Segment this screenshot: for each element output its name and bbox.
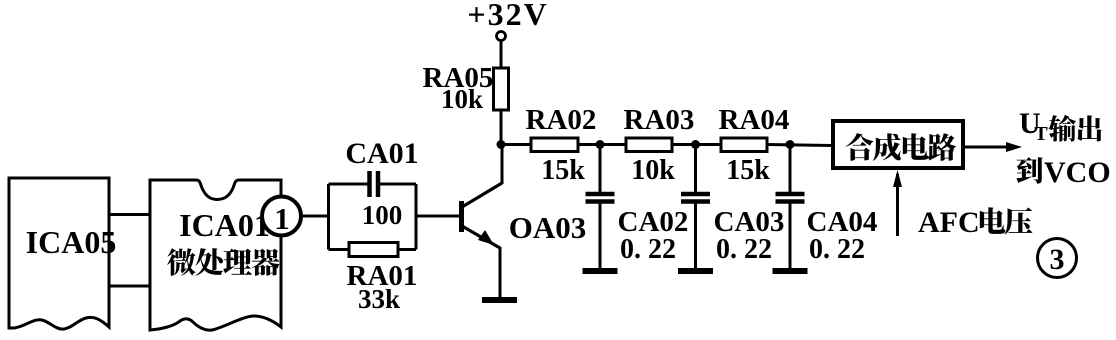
resistor RA01 33k [329,243,418,315]
svg-text:RA02: RA02 [526,104,597,136]
node A (CA02 tap) [596,140,605,149]
svg-text:AFC: AFC [918,206,980,239]
wire RA05 to junction [500,110,503,145]
wire RC to transistor base [416,215,460,218]
svg-text:CA01: CA01 [345,137,418,170]
svg-text:VCO: VCO [1044,156,1111,189]
resistor RA05 10k [423,62,509,114]
resistor RA03 10k [624,104,695,186]
wire RA03 to RA04 [672,143,721,146]
page marker 3 [1038,239,1077,278]
wire junction to RA02 [501,143,531,146]
wire ICA05-ICA01 lower [109,285,150,288]
AFC input arrow [893,170,902,236]
ground (CA02) [583,268,618,274]
svg-text:ICA01: ICA01 [179,207,270,243]
resistor RA02 15k [526,104,597,186]
capacitor CA04 0.22 [776,145,878,269]
ground (CA04) [773,268,808,274]
svg-text:100: 100 [362,200,403,230]
node B (CA03 tap) [691,140,700,149]
svg-text:0. 22: 0. 22 [809,234,865,265]
wire output arrow to VCO [963,142,1022,152]
wire ICA05-ICA01 upper [109,213,150,216]
label AFC voltage [918,206,1032,239]
node collector junction [497,140,506,149]
IC block ICA01 microprocessor [150,180,281,330]
svg-text:T: T [1034,123,1048,145]
svg-text:+32V: +32V [467,0,548,32]
svg-text:0. 22: 0. 22 [716,234,772,265]
label to VCO [1016,156,1110,189]
ground (emitter) [482,297,517,303]
wire RA04 to synth box [767,145,832,146]
svg-text:RA03: RA03 [624,104,695,136]
svg-text:10k: 10k [631,155,675,186]
svg-text:33k: 33k [358,284,400,314]
svg-text:OA03: OA03 [509,210,587,245]
svg-text:0. 22: 0. 22 [620,234,676,265]
svg-text:ICA05: ICA05 [26,224,117,260]
wire pin1 to RC network [301,215,329,218]
label UT output [1019,107,1102,145]
capacitor CA02 0.22 [586,145,689,269]
resistor RA04 15k [719,104,790,186]
wire RC network left vertical [327,184,330,250]
svg-text:3: 3 [1050,243,1065,276]
wire RC network right vertical [415,184,418,250]
node C (CA04 tap) [786,140,795,149]
wire RA02 to RA03 [578,143,626,146]
power terminal +32V [467,0,548,68]
capacitor CA01 100 [329,137,419,230]
transistor OA03 [462,144,587,299]
IC block ICA05 [9,178,116,329]
svg-text:1: 1 [274,201,290,236]
svg-text:10k: 10k [441,84,483,114]
block synthesizer 合成电路 [833,121,963,168]
svg-text:15k: 15k [726,155,770,186]
ground (CA03) [678,268,713,274]
svg-text:RA04: RA04 [719,104,790,136]
node pin 1 [262,197,301,237]
svg-text:15k: 15k [541,155,585,186]
capacitor CA03 0.22 [681,145,784,269]
